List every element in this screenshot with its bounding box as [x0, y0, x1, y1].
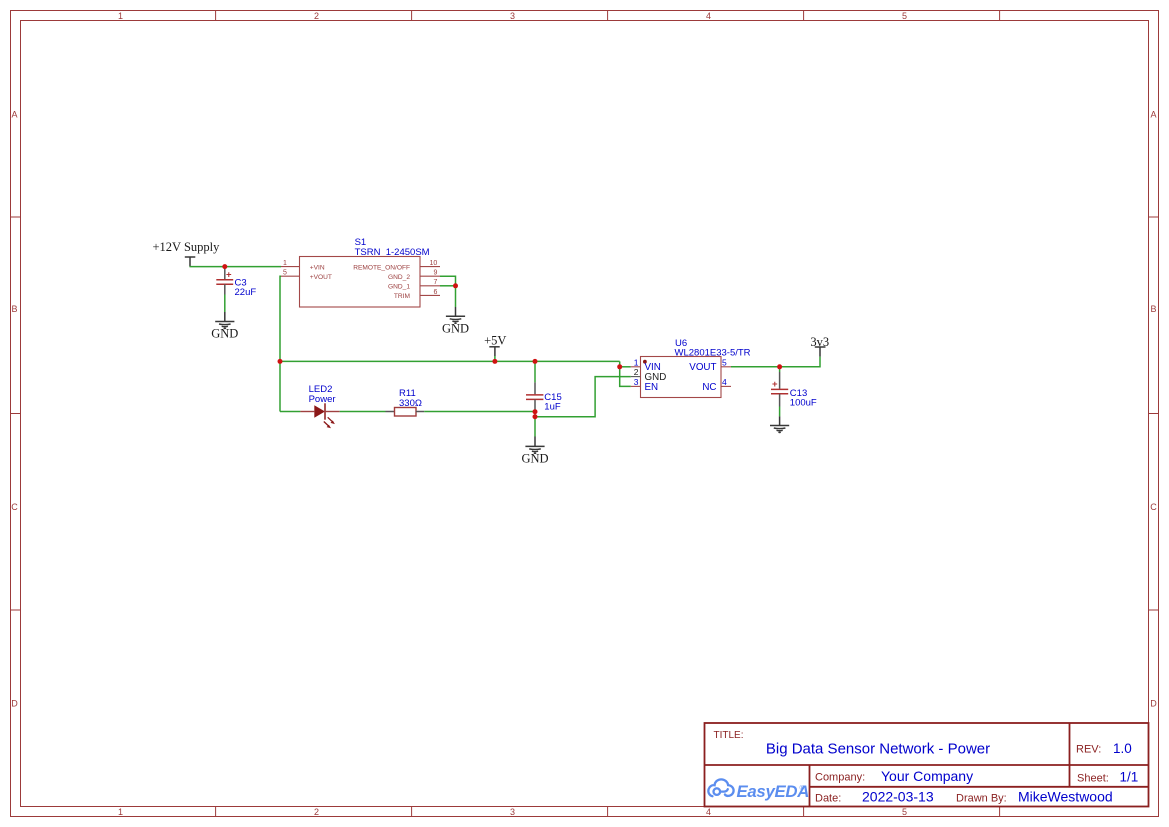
svg-text:EN: EN — [645, 382, 659, 393]
wire +5V rail — [280, 360, 620, 362]
rev/sheet cell divider — [1069, 723, 1071, 787]
svg-text:+5V: +5V — [484, 334, 506, 348]
junction node VOUT — [777, 364, 782, 369]
svg-text:+VIN: +VIN — [310, 264, 325, 271]
wire S1 ground node down — [455, 286, 457, 307]
svg-text:3: 3 — [510, 807, 515, 817]
S1 pin 9 stub — [420, 275, 440, 277]
wire S1 pin7 to GND node — [440, 285, 456, 287]
wire +5V flag to rail — [494, 356, 496, 361]
svg-text:3: 3 — [634, 377, 639, 387]
wire rail corner to U6 node — [619, 361, 621, 366]
wire VOUT to C13 node — [731, 366, 780, 368]
svg-text:GND: GND — [521, 452, 548, 466]
SCHEMATIC — [153, 237, 830, 466]
svg-text:5: 5 — [722, 357, 727, 367]
S1 pin 7 stub — [420, 285, 440, 287]
junction node rail left — [278, 359, 283, 364]
TITLEBLOCK — [705, 723, 1149, 807]
ground below S1 — [446, 307, 465, 323]
svg-text:D: D — [11, 699, 18, 709]
wire C3 to GND — [224, 295, 226, 313]
column tick marks bottom — [216, 807, 1000, 817]
row tick marks right — [1149, 217, 1159, 610]
module S1 body — [300, 257, 421, 308]
wire C3 node to S1 pin1 — [225, 266, 281, 268]
svg-text:2: 2 — [314, 807, 319, 817]
svg-text:GND: GND — [442, 322, 469, 336]
row letters left — [11, 110, 18, 709]
wire node to VIN pin — [620, 366, 631, 368]
wire C15 bottom to GND — [534, 410, 536, 437]
svg-text:22uF: 22uF — [235, 287, 257, 298]
row letters right — [1150, 110, 1157, 709]
svg-text:Big Data Sensor Network - Powe: Big Data Sensor Network - Power — [766, 741, 990, 758]
svg-text:5: 5 — [902, 807, 907, 817]
svg-text:Date:: Date: — [815, 793, 841, 805]
svg-text:2: 2 — [634, 367, 639, 377]
svg-text:1: 1 — [634, 357, 639, 367]
svg-text:5: 5 — [283, 270, 287, 277]
ground below C13 — [770, 416, 789, 432]
junction node +5V — [492, 359, 497, 364]
wire to LED anode — [280, 411, 300, 413]
wire LED cathode to R11 — [340, 411, 386, 413]
netflag +5V symbol — [489, 347, 499, 356]
junction node C3 top — [222, 264, 227, 269]
IC U6 body — [641, 357, 722, 398]
svg-text:6: 6 — [434, 289, 438, 296]
S1 pin 6 stub — [420, 294, 440, 296]
ground below C15 — [525, 437, 544, 454]
svg-text:EasyEDA: EasyEDA — [737, 782, 810, 801]
capacitor C13 — [771, 372, 788, 407]
svg-text:®: ® — [800, 784, 805, 792]
title row divider — [705, 764, 1149, 766]
svg-text:1uF: 1uF — [544, 402, 561, 413]
svg-text:REV:: REV: — [1076, 744, 1101, 756]
svg-text:4: 4 — [706, 11, 711, 21]
wire +12V to C3 node — [190, 266, 225, 268]
svg-text:C: C — [1150, 502, 1157, 512]
U6 pin 3 stub — [631, 385, 641, 387]
wire C15 gnd node to U6 GND pin — [535, 377, 631, 417]
svg-text:REMOTE_ON/OFF: REMOTE_ON/OFF — [353, 264, 410, 271]
junction node U6 VIN — [617, 364, 622, 369]
junction node C15 top — [533, 359, 538, 364]
column numbers bottom — [118, 807, 907, 817]
wire node down to EN pin — [620, 367, 631, 387]
svg-text:+: + — [226, 270, 232, 281]
svg-text:A: A — [1150, 110, 1156, 120]
svg-text:GND_1: GND_1 — [388, 284, 410, 291]
svg-text:1.0: 1.0 — [1113, 741, 1132, 756]
U6 pin 4 stub — [721, 385, 731, 387]
svg-text:Drawn By:: Drawn By: — [956, 793, 1007, 805]
svg-text:Company:: Company: — [815, 772, 865, 784]
svg-text:100uF: 100uF — [790, 398, 817, 409]
wire S1 pin9 to GND corner — [440, 276, 456, 286]
svg-text:TITLE:: TITLE: — [714, 730, 744, 741]
led LED2 — [300, 403, 339, 428]
svg-text:2022-03-13: 2022-03-13 — [862, 789, 934, 805]
logo cell divider — [809, 765, 811, 807]
svg-text:B: B — [11, 304, 17, 314]
svg-text:C: C — [11, 502, 18, 512]
title block outline — [705, 723, 1149, 807]
junction node C15 bottom R11 — [533, 409, 538, 414]
wire VOUT node to 3v3 — [780, 357, 820, 367]
svg-text:4: 4 — [722, 377, 727, 387]
wire C13 to GND — [779, 407, 781, 417]
capacitor C3 — [216, 267, 233, 295]
svg-text:1/1: 1/1 — [1120, 770, 1139, 785]
svg-text:TRIM: TRIM — [394, 293, 410, 300]
company/date row divider — [810, 786, 1149, 788]
wire S1 pin5 down to +5V rail — [280, 276, 281, 361]
svg-text:Your Company: Your Company — [881, 768, 973, 784]
svg-text:Power: Power — [309, 394, 336, 405]
wire rail down to LED row — [279, 361, 281, 411]
svg-text:4: 4 — [706, 807, 711, 817]
svg-text:Sheet:: Sheet: — [1077, 773, 1109, 785]
svg-text:1: 1 — [283, 260, 287, 267]
column tick marks top — [216, 11, 1000, 21]
U6 pin 2 stub — [631, 376, 641, 378]
resistor R11 — [386, 408, 425, 417]
svg-text:MikeWestwood: MikeWestwood — [1018, 789, 1113, 805]
svg-text:+: + — [772, 379, 778, 390]
svg-text:GND_2: GND_2 — [388, 274, 410, 281]
netflag +12V supply symbol — [185, 257, 196, 267]
svg-text:5: 5 — [902, 11, 907, 21]
wire C13 top — [779, 367, 781, 372]
U6 pin 1 stub — [631, 366, 641, 368]
column numbers top — [118, 11, 907, 21]
svg-text:1: 1 — [118, 807, 123, 817]
svg-text:+12V Supply: +12V Supply — [153, 240, 221, 254]
junction node C15 bottom GND — [533, 414, 538, 419]
svg-text:3: 3 — [510, 11, 515, 21]
svg-text:B: B — [1150, 304, 1156, 314]
ground below C3 — [215, 312, 234, 329]
svg-text:NC: NC — [702, 382, 716, 393]
svg-text:GND: GND — [211, 327, 238, 341]
S1 pin 10 stub — [420, 266, 440, 268]
svg-text:+VOUT: +VOUT — [310, 274, 332, 281]
svg-text:A: A — [11, 110, 17, 120]
U6 pin1 orientation dot — [643, 360, 647, 364]
S1 pin 1 stub — [281, 266, 300, 268]
wire C15 top — [534, 361, 536, 382]
svg-text:3v3: 3v3 — [810, 335, 829, 349]
netflag 3v3 symbol — [815, 347, 826, 357]
U6 pin 5 stub — [721, 366, 731, 368]
EasyEDA logo cloud icon — [708, 779, 733, 796]
svg-text:7: 7 — [434, 279, 438, 286]
svg-text:10: 10 — [430, 260, 438, 267]
row tick marks left — [10, 217, 21, 610]
junction node S1 ground — [453, 283, 458, 288]
S1 pin 5 stub — [281, 275, 300, 277]
svg-text:1: 1 — [118, 11, 123, 21]
svg-text:2: 2 — [314, 11, 319, 21]
capacitor C15 — [526, 382, 543, 409]
svg-text:VOUT: VOUT — [689, 362, 716, 373]
svg-text:D: D — [1150, 699, 1157, 709]
wire R11 to C15 bottom node — [424, 411, 535, 413]
svg-text:9: 9 — [434, 270, 438, 277]
